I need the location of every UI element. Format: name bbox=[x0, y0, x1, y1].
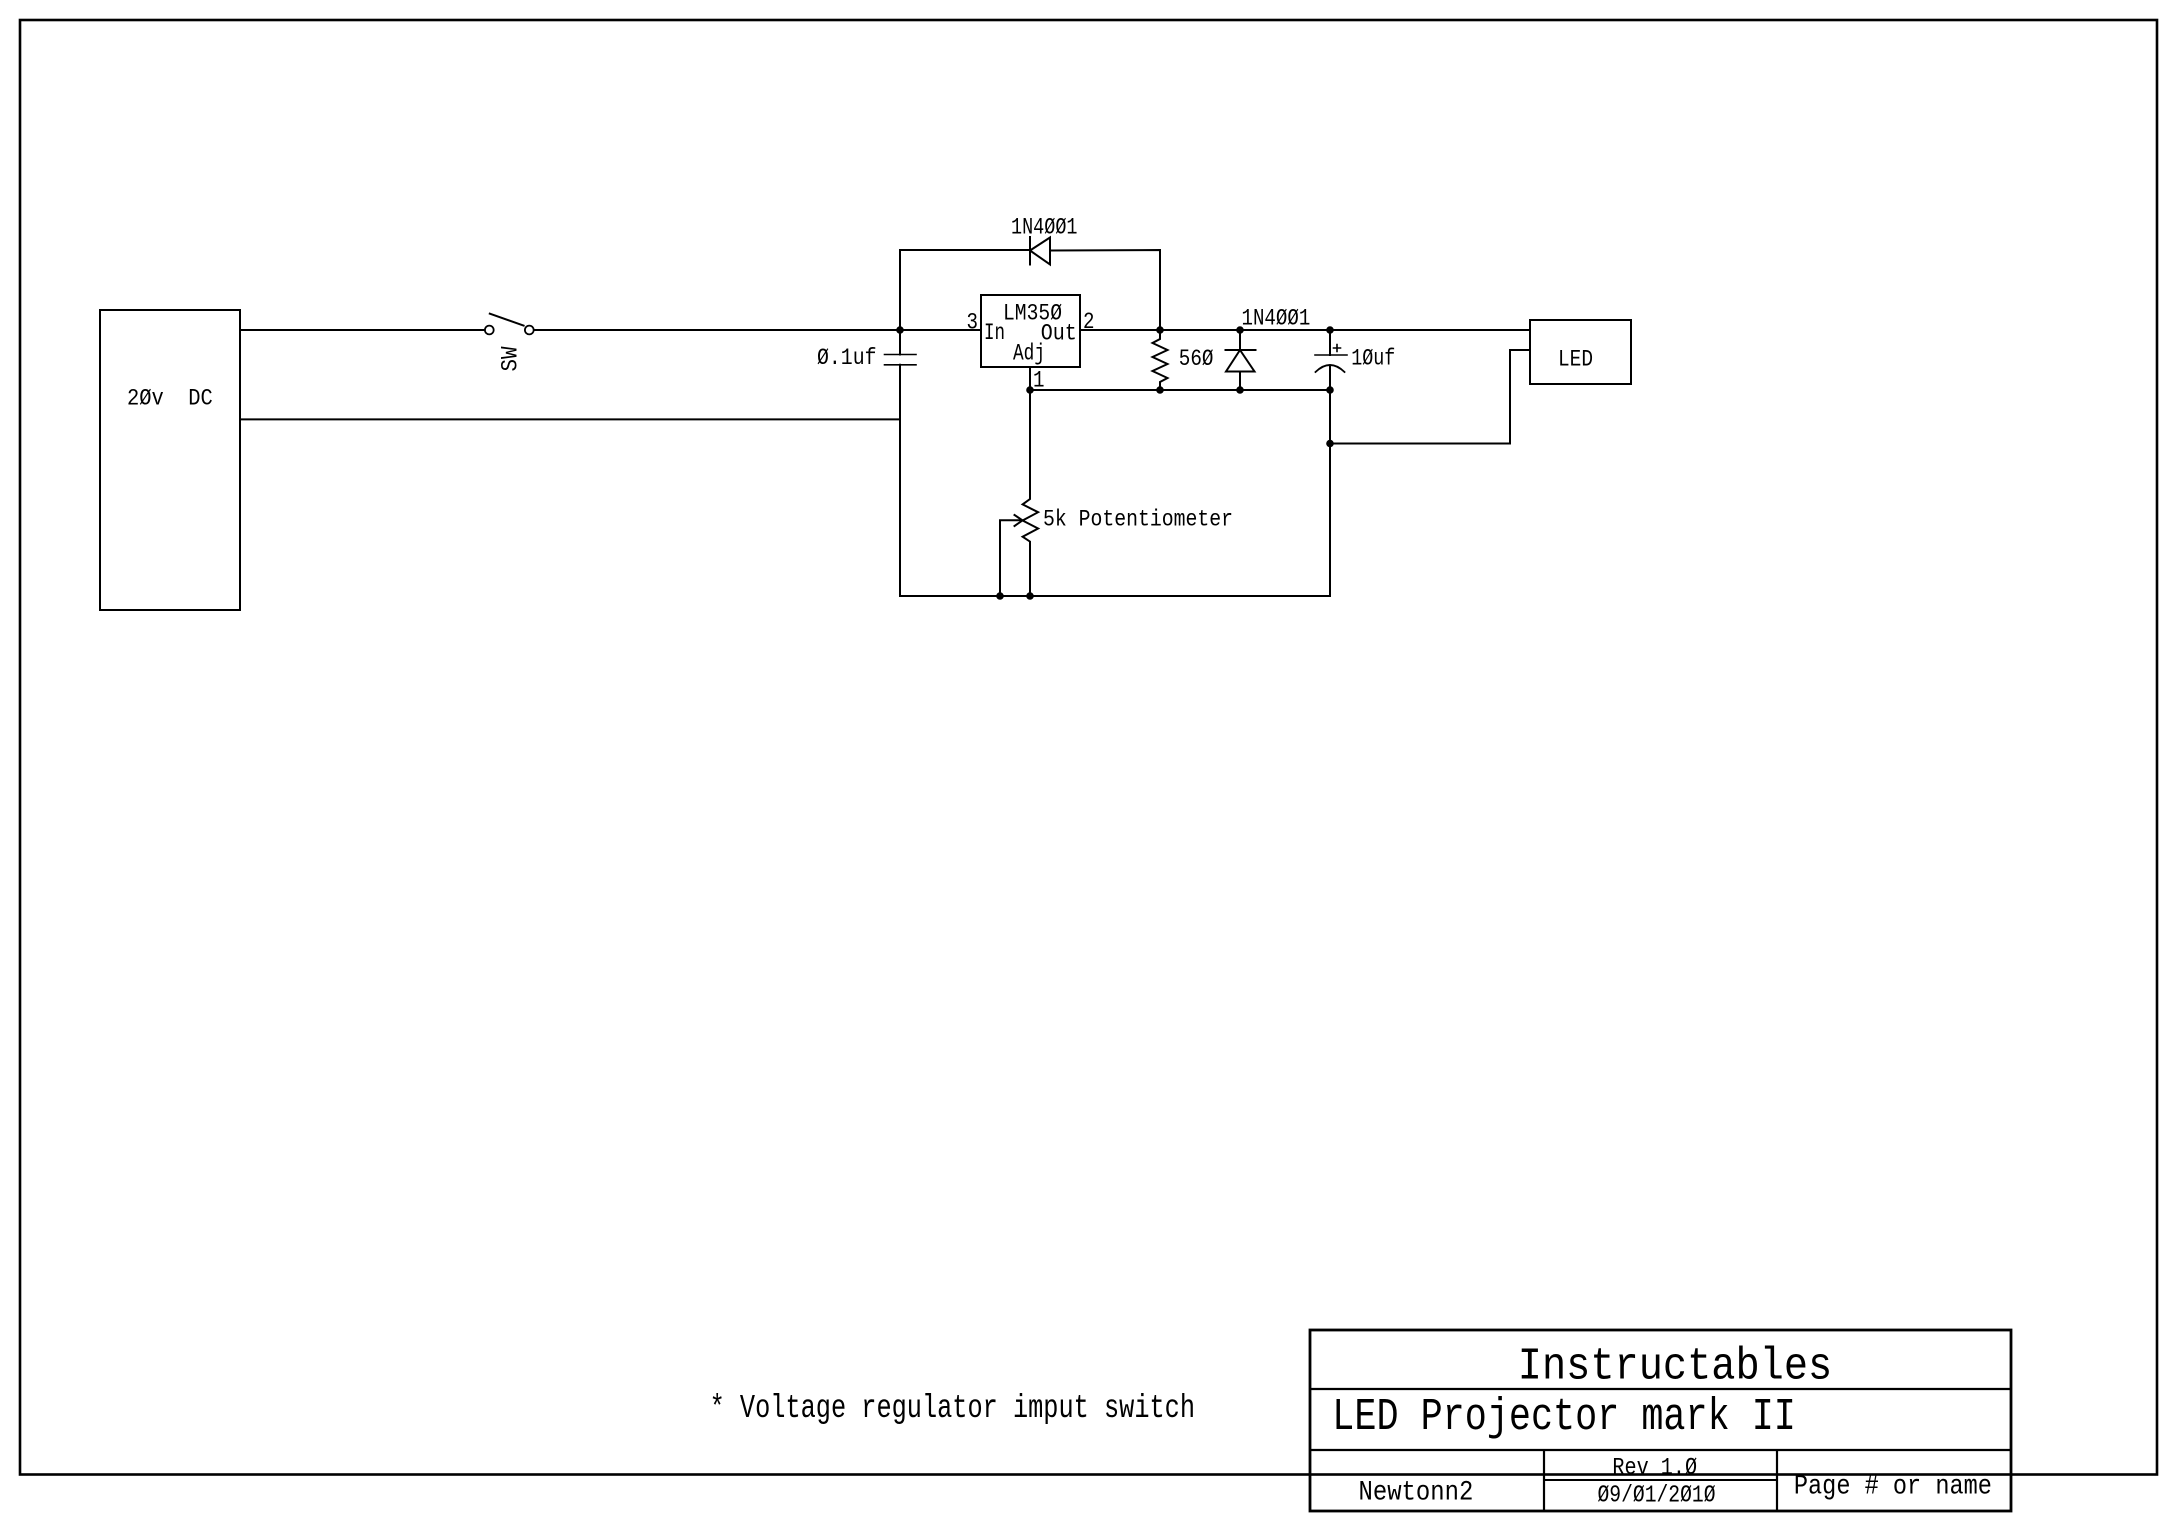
switch SW contact circle left bbox=[485, 326, 494, 335]
bottom rail wire bbox=[900, 595, 1330, 597]
wire: switch to LM350 In bbox=[534, 329, 981, 331]
svg-text:SW: SW bbox=[498, 346, 524, 371]
diode D2 bottom lead bbox=[1239, 372, 1241, 391]
left vertical wire lower segment bbox=[899, 365, 901, 596]
svg-text:LED: LED bbox=[1558, 347, 1593, 373]
diode D2 1N4001 triangle bbox=[1226, 350, 1255, 372]
svg-text:LED Projector mark II: LED Projector mark II bbox=[1332, 1391, 1796, 1443]
diode D1 1N4001 triangle bbox=[1030, 238, 1050, 265]
wire: LM350 Out to LED box bbox=[1080, 329, 1530, 331]
resistor R1 560 leads and zigzag bbox=[1153, 330, 1168, 390]
capacitor C2 10uf curved plate bbox=[1316, 365, 1345, 372]
node: LED return tap bbox=[1326, 440, 1334, 448]
node: adj rail at R1 bbox=[1156, 386, 1164, 394]
svg-text:1N4ØØ1: 1N4ØØ1 bbox=[1011, 215, 1078, 241]
capacitor C1 0.1uf bottom plate bbox=[885, 364, 917, 366]
wire: diode D1 right lead and vertical to Out net bbox=[1050, 250, 1160, 330]
junction dots bbox=[896, 326, 1334, 600]
svg-text:56Ø: 56Ø bbox=[1179, 346, 1214, 372]
diode D2 1N4001 cathode bar bbox=[1226, 349, 1256, 351]
node: out net at D1 bbox=[1156, 326, 1164, 334]
switch SW contact circle right bbox=[525, 326, 534, 335]
potentiometer R2 wiper arrow bbox=[1000, 520, 1022, 596]
svg-text:Page # or name: Page # or name bbox=[1794, 1472, 1992, 1503]
node: adj rail at pot bbox=[1026, 386, 1034, 394]
title block divider 2 bbox=[1310, 1449, 2011, 1451]
LM350 regulator box U1 bbox=[981, 295, 1080, 367]
rev/date cell divider bbox=[1544, 1479, 1777, 1481]
title block outer box bbox=[1310, 1330, 2011, 1511]
svg-text:1: 1 bbox=[1033, 368, 1045, 394]
node: pot at bottom rail bbox=[1026, 592, 1034, 600]
svg-text:3: 3 bbox=[967, 310, 979, 336]
node: input net at C1 bbox=[896, 326, 904, 334]
capacitor C2 bottom lead bbox=[1329, 366, 1331, 596]
title block bbox=[1310, 1330, 2011, 1511]
svg-text:In: In bbox=[984, 320, 1005, 346]
node: out net at C2 bbox=[1326, 326, 1334, 334]
Adj rail wire bbox=[1030, 389, 1330, 391]
svg-text:Out: Out bbox=[1041, 321, 1077, 347]
svg-text:* Voltage regulator imput swit: * Voltage regulator imput switch bbox=[710, 1390, 1195, 1427]
power source box 20v DC bbox=[100, 310, 240, 610]
capacitor C2 10uf top plate bbox=[1315, 354, 1347, 356]
diode D2 1N4001 top lead bbox=[1239, 330, 1241, 350]
svg-text:Ø.1uf: Ø.1uf bbox=[817, 345, 877, 371]
left vertical wire (input node) upper bbox=[900, 250, 1030, 355]
capacitor C2 10uf top lead bbox=[1329, 330, 1331, 355]
capacitor C2 plus sign bbox=[1334, 345, 1341, 352]
labels: schematic small text bbox=[127, 215, 1593, 533]
wire: source top output to switch bbox=[240, 329, 485, 331]
wire: LED return to cap node bbox=[1330, 350, 1530, 444]
node: out net at D2 bbox=[1236, 326, 1244, 334]
title block divider 1 bbox=[1310, 1388, 2011, 1390]
potentiometer R2 5k body bbox=[1023, 390, 1039, 596]
vertical divider left bbox=[1543, 1450, 1545, 1511]
svg-text:Rev 1.Ø: Rev 1.Ø bbox=[1612, 1455, 1697, 1482]
diode D1 1N4001 cathode bar bbox=[1029, 237, 1031, 265]
node: adj rail at D2 bbox=[1236, 386, 1244, 394]
svg-text:1N4ØØ1: 1N4ØØ1 bbox=[1242, 306, 1311, 332]
wire: source bottom return bbox=[240, 418, 900, 420]
svg-text:Adj: Adj bbox=[1013, 341, 1045, 367]
svg-text:5k Potentiometer: 5k Potentiometer bbox=[1043, 507, 1233, 533]
LED load box bbox=[1530, 320, 1631, 384]
svg-text:Ø9/Ø1/2Ø1Ø: Ø9/Ø1/2Ø1Ø bbox=[1598, 1483, 1716, 1510]
node: adj rail at C2 bbox=[1326, 386, 1334, 394]
capacitor C1 0.1uf top plate bbox=[885, 354, 917, 356]
svg-text:2Øv DC: 2Øv DC bbox=[127, 386, 213, 412]
svg-text:Newtonn2: Newtonn2 bbox=[1359, 1478, 1474, 1509]
switch SW lever bbox=[490, 314, 524, 326]
svg-text:1Øuf: 1Øuf bbox=[1351, 345, 1395, 371]
node: wiper at bottom rail bbox=[996, 592, 1004, 600]
Adj pin wire bbox=[1029, 367, 1031, 390]
vertical divider right bbox=[1776, 1450, 1778, 1511]
svg-text:2: 2 bbox=[1083, 309, 1095, 335]
svg-text:Instructables: Instructables bbox=[1518, 1340, 1832, 1392]
